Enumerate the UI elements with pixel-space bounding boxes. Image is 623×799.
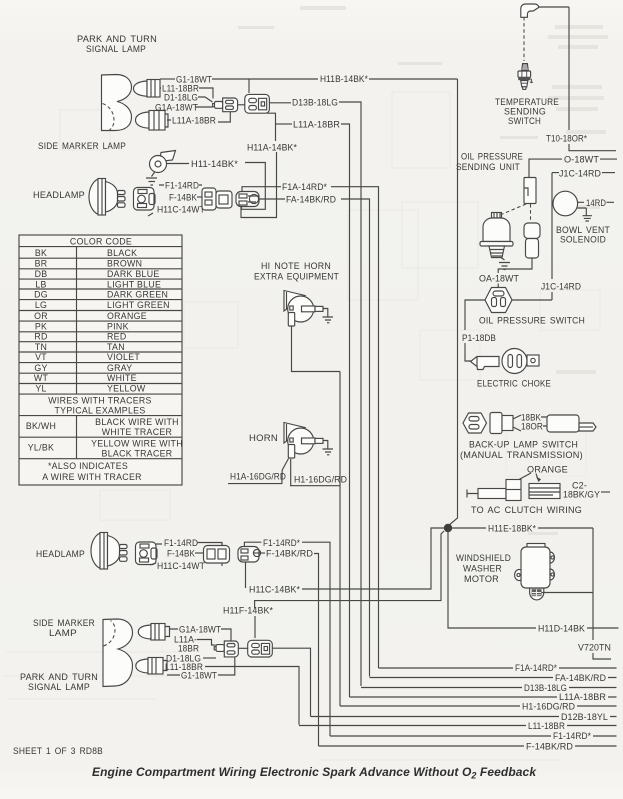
electric choke spade <box>471 357 500 370</box>
svg-text:H11C-14WT: H11C-14WT <box>157 205 205 215</box>
svg-text:J1C-14RD: J1C-14RD <box>541 282 581 292</box>
svg-text:TO AC CLUTCH WIRING: TO AC CLUTCH WIRING <box>471 505 582 515</box>
wire L11A leader (bottom) <box>197 640 216 646</box>
sending unit cap <box>492 213 502 219</box>
wire L11-18BR leader <box>160 88 213 99</box>
wire fan F1 <box>330 735 617 737</box>
svg-text:D12B-18YL: D12B-18YL <box>561 712 608 722</box>
svg-text:SIDE MARKER LAMP: SIDE MARKER LAMP <box>38 141 126 151</box>
svg-text:SIDE MARKER: SIDE MARKER <box>33 618 95 628</box>
wire J1C bracket <box>552 173 559 279</box>
wire fan FA <box>370 677 617 679</box>
ac clutch connector <box>467 480 560 501</box>
svg-text:V720TN: V720TN <box>578 643 611 653</box>
svg-text:LB: LB <box>35 279 46 289</box>
svg-text:DARK GREEN: DARK GREEN <box>107 290 168 300</box>
ground (side marker) <box>146 178 157 185</box>
hi note horn <box>284 291 328 327</box>
lamp housing (bottom) <box>103 619 133 687</box>
svg-text:F1-14RD: F1-14RD <box>165 181 199 191</box>
svg-text:LIGHT GREEN: LIGHT GREEN <box>107 300 170 310</box>
svg-text:SENDING UNIT: SENDING UNIT <box>456 162 520 172</box>
side marker lamp symbol <box>150 151 176 177</box>
svg-text:COLOR CODE: COLOR CODE <box>70 237 132 247</box>
svg-text:L11-18BR: L11-18BR <box>528 721 565 731</box>
svg-text:L11A-18BR: L11A-18BR <box>172 116 216 126</box>
svg-text:(MANUAL TRANSMISSION): (MANUAL TRANSMISSION) <box>460 450 583 460</box>
dashed wire to temp switch <box>523 17 525 61</box>
inline connector pair (bottom cluster) <box>214 641 238 657</box>
svg-text:DB: DB <box>35 269 48 279</box>
inline connector pair (park/turn) <box>213 98 238 112</box>
headlamp symbol (bottom) <box>91 533 127 570</box>
svg-text:18BR: 18BR <box>178 644 199 654</box>
park/turn lamp housing <box>102 75 132 131</box>
wire F1 right + drop <box>302 542 330 736</box>
svg-text:L11A-18BR: L11A-18BR <box>293 120 340 130</box>
svg-text:YL: YL <box>35 384 46 394</box>
horn <box>284 423 328 459</box>
wire D13B left <box>270 102 292 104</box>
wire G1/H11B main run <box>212 78 458 80</box>
headlamp symbol <box>89 179 125 216</box>
big connector (top) <box>245 94 270 113</box>
svg-text:BACK-UP LAMP SWITCH: BACK-UP LAMP SWITCH <box>469 440 578 450</box>
svg-text:O-18WT: O-18WT <box>564 155 599 165</box>
svg-text:RED: RED <box>107 332 126 342</box>
bowl vent solenoid <box>553 191 586 216</box>
svg-text:H11-14BK*: H11-14BK* <box>191 159 238 169</box>
wire to OA-18WT <box>498 258 532 273</box>
wire pair to big connector <box>238 104 245 106</box>
headlamp inline connector (bottom) <box>204 543 230 567</box>
svg-text:SENDING: SENDING <box>504 107 546 117</box>
svg-text:PARK AND TURN: PARK AND TURN <box>20 672 98 682</box>
wire H11B drop + diagonal to junction <box>448 79 458 526</box>
svg-text:H1-16DG/RD: H1-16DG/RD <box>294 475 347 485</box>
wire fan D13B <box>361 687 617 689</box>
wire pair to big connector (bottom) <box>239 647 248 649</box>
wire fan D12B <box>311 716 617 718</box>
svg-text:SOLENOID: SOLENOID <box>560 235 606 245</box>
svg-text:OIL PRESSURE: OIL PRESSURE <box>461 152 523 162</box>
wire H1 underline + drop <box>290 372 340 707</box>
svg-text:H11F-14BK*: H11F-14BK* <box>223 606 273 616</box>
wire motor plug to vertical <box>542 592 593 594</box>
svg-text:WHITE: WHITE <box>107 373 137 383</box>
wire fan L11A <box>350 696 617 698</box>
headlamp inline connector pair (top) <box>202 188 232 210</box>
wire FA drop <box>341 199 370 677</box>
wire V720TN bracket <box>593 653 611 659</box>
svg-text:YELLOW WIRE WITH: YELLOW WIRE WITH <box>91 439 183 449</box>
svg-text:BLACK TRACER: BLACK TRACER <box>102 449 173 459</box>
svg-text:F1-14RD*: F1-14RD* <box>263 538 300 548</box>
svg-text:MOTOR: MOTOR <box>464 574 499 584</box>
color code table <box>19 235 182 485</box>
svg-text:HORN: HORN <box>249 433 278 443</box>
svg-text:H1A-16DG/RD: H1A-16DG/RD <box>230 472 286 482</box>
ghost bleed-through marks (decorative) <box>238 6 608 535</box>
headlamp right connector (top) <box>236 192 259 207</box>
svg-text:BK: BK <box>35 248 47 258</box>
svg-text:PK: PK <box>35 321 47 331</box>
wire H11C-14BK* drop <box>245 562 247 588</box>
wire O-18WT left <box>529 159 562 177</box>
svg-text:PARK AND TURN: PARK AND TURN <box>77 34 157 44</box>
wire G1A leader <box>170 629 231 641</box>
svg-text:14RD: 14RD <box>586 198 606 208</box>
svg-text:SIGNAL LAMP: SIGNAL LAMP <box>86 44 146 54</box>
svg-text:SHEET 1 OF 3 RD8B: SHEET 1 OF 3 RD8B <box>13 746 103 756</box>
svg-text:F-14BK: F-14BK <box>169 193 197 203</box>
electric choke <box>502 349 539 374</box>
ground (hi note horn) <box>323 317 334 323</box>
wire horn lead H1A <box>228 459 289 484</box>
svg-text:RD: RD <box>34 332 47 342</box>
svg-text:A WIRE WITH TRACER: A WIRE WITH TRACER <box>42 472 142 482</box>
svg-text:J1C-14RD: J1C-14RD <box>559 169 601 179</box>
temperature sending switch <box>518 64 533 90</box>
oil pressure sending unit body <box>480 218 513 258</box>
wire F1 leader <box>159 184 202 186</box>
svg-text:G1A-18WT: G1A-18WT <box>179 625 221 635</box>
wire H11D <box>448 532 619 628</box>
wire D13B right + drop <box>339 102 361 686</box>
wire H11 leader <box>167 163 265 210</box>
svg-text:ORANGE: ORANGE <box>107 311 147 321</box>
wire fan F1A <box>379 667 617 669</box>
svg-text:WINDSHIELD: WINDSHIELD <box>456 553 511 563</box>
label PARK AND TURN SIGNAL LAMP <box>77 34 157 54</box>
bulb (park) <box>134 80 161 98</box>
svg-text:SIGNAL LAMP: SIGNAL LAMP <box>28 682 90 692</box>
svg-text:T10-18OR*: T10-18OR* <box>546 134 587 144</box>
svg-text:PINK: PINK <box>107 321 129 331</box>
svg-text:HEADLAMP: HEADLAMP <box>36 549 85 559</box>
svg-text:EXTRA EQUIPMENT: EXTRA EQUIPMENT <box>254 272 339 282</box>
wire drop to connector <box>248 79 250 93</box>
orange arrows <box>519 473 531 480</box>
wire big connector to D12B corner <box>272 648 310 716</box>
wire F right + drop <box>314 554 319 747</box>
svg-text:TEMPERATURE: TEMPERATURE <box>495 97 559 107</box>
wire H11C tick (bottom) <box>150 563 156 565</box>
wire F1A <box>242 187 281 192</box>
headlamp connector (bottom) <box>136 542 158 565</box>
svg-text:LAMP: LAMP <box>49 628 77 638</box>
elbow connector <box>521 4 539 17</box>
svg-text:F-14BK: F-14BK <box>167 549 195 559</box>
wire H11F drop <box>254 616 256 638</box>
svg-text:TAN: TAN <box>107 342 125 352</box>
svg-text:Engine Compartment Wiring Elec: Engine Compartment Wiring Electronic Spa… <box>92 765 537 781</box>
svg-text:P1-18DB: P1-18DB <box>462 333 496 343</box>
svg-text:L11A-18BR: L11A-18BR <box>559 692 606 702</box>
bulb (turn) <box>136 111 169 131</box>
windshield washer motor <box>515 544 555 600</box>
svg-text:BR: BR <box>35 259 48 269</box>
svg-text:F1-14RD*: F1-14RD* <box>553 731 591 741</box>
junction dot <box>444 524 452 532</box>
big connector (bottom cluster) <box>248 640 273 657</box>
wire H11C-14BK* run <box>302 528 444 589</box>
wire F leader (bottom) <box>195 552 204 554</box>
wire J1C right <box>602 172 615 174</box>
svg-text:FA-14BK/RD: FA-14BK/RD <box>555 673 606 683</box>
svg-text:H11D-14BK: H11D-14BK <box>538 624 585 634</box>
ground (solenoid) <box>583 216 592 221</box>
wire F leader <box>197 196 202 198</box>
ground (horn) <box>323 449 334 455</box>
svg-text:SWITCH: SWITCH <box>508 116 541 126</box>
svg-text:18BK/GY: 18BK/GY <box>563 490 600 500</box>
wire fan L11 <box>299 725 617 727</box>
wire F1-14RD* corner <box>244 542 261 546</box>
back-up plug <box>547 415 596 432</box>
svg-text:HEADLAMP: HEADLAMP <box>33 190 85 200</box>
svg-text:LIGHT BLUE: LIGHT BLUE <box>107 279 161 289</box>
wire G1-18WT to label <box>160 78 175 80</box>
svg-text:OIL PRESSURE SWITCH: OIL PRESSURE SWITCH <box>479 316 585 326</box>
svg-text:F1A-14RD*: F1A-14RD* <box>282 182 327 192</box>
wire J1C right of hex <box>512 292 552 300</box>
svg-text:LG: LG <box>35 300 47 310</box>
svg-text:GY: GY <box>34 363 47 373</box>
bulb side marker (bottom) <box>138 624 169 641</box>
wire L11A left <box>276 123 292 125</box>
svg-text:F1A-14RD*: F1A-14RD* <box>515 663 557 673</box>
svg-text:WT: WT <box>34 373 49 383</box>
svg-text:OR: OR <box>34 311 48 321</box>
wire L11 to corner <box>205 667 299 725</box>
svg-text:ELECTRIC CHOKE: ELECTRIC CHOKE <box>477 379 551 389</box>
svg-text:VIOLET: VIOLET <box>107 352 140 362</box>
svg-text:F-14BK/RD: F-14BK/RD <box>266 549 313 559</box>
dashed to sending unit <box>499 204 526 216</box>
svg-text:YL/BK: YL/BK <box>28 443 54 453</box>
svg-text:H11C-14BK*: H11C-14BK* <box>249 585 300 595</box>
svg-text:G1A-18WT: G1A-18WT <box>155 103 198 113</box>
lower connector + boot <box>524 223 540 258</box>
svg-text:BLACK WIRE WITH: BLACK WIRE WITH <box>95 417 179 427</box>
right connector (bottom) <box>238 547 261 563</box>
svg-text:D1-18LG: D1-18LG <box>164 93 198 103</box>
svg-text:HI NOTE HORN: HI NOTE HORN <box>261 261 331 271</box>
wire elbow to T10 <box>539 7 569 130</box>
wire F1A drop <box>331 187 379 668</box>
wire FA <box>259 198 285 200</box>
svg-text:DG: DG <box>34 290 48 300</box>
wire H11F to junction <box>255 531 444 608</box>
svg-text:WHITE TRACER: WHITE TRACER <box>102 427 172 437</box>
svg-text:H11E-18BK*: H11E-18BK* <box>488 524 536 534</box>
svg-text:F1-14RD: F1-14RD <box>164 538 198 548</box>
wire fan H1 <box>340 705 617 707</box>
svg-text:H11B-14BK*: H11B-14BK* <box>320 74 368 84</box>
svg-text:OA-18WT: OA-18WT <box>479 274 519 284</box>
wire FA leader <box>261 552 265 554</box>
svg-text:H1-16DG/RD: H1-16DG/RD <box>522 702 575 712</box>
svg-text:GRAY: GRAY <box>107 363 132 373</box>
wire H11C tick <box>148 213 153 216</box>
headlamp connector (top) <box>134 188 156 211</box>
wire to plug <box>541 417 547 426</box>
svg-text:18OR: 18OR <box>521 422 543 432</box>
oil sending unit connector <box>524 178 536 204</box>
wire fan F <box>319 745 617 747</box>
svg-text:F-14BK/RD: F-14BK/RD <box>526 742 573 752</box>
svg-text:TN: TN <box>35 342 47 352</box>
wire G1A leader <box>195 106 213 108</box>
wire P1 left <box>465 300 485 330</box>
svg-text:H11C-14WT: H11C-14WT <box>157 561 205 571</box>
wire hi note horn to H1 <box>292 326 341 372</box>
wire H11A below label <box>241 152 277 218</box>
housing dashed arc <box>103 104 115 131</box>
svg-text:G1-18WT: G1-18WT <box>181 671 217 681</box>
svg-text:H11A-14BK*: H11A-14BK* <box>247 143 297 153</box>
svg-text:YELLOW: YELLOW <box>107 384 146 394</box>
back-up switch connector <box>490 413 521 434</box>
wire L11A leader <box>167 111 230 122</box>
wire F1 (bottom) leader <box>156 543 222 546</box>
wire 14RD <box>578 201 614 203</box>
wire D1 leader <box>198 97 213 102</box>
svg-text:BROWN: BROWN <box>107 259 142 269</box>
svg-text:BOWL VENT: BOWL VENT <box>556 225 610 235</box>
svg-text:D13B-18LG: D13B-18LG <box>292 98 338 108</box>
wire O right <box>600 158 617 160</box>
oil pressure switch <box>485 288 512 313</box>
wire c2 dash <box>601 491 610 493</box>
back-up switch hex <box>463 413 487 433</box>
svg-text:VT: VT <box>35 352 47 362</box>
wire G1 leader (bottom) <box>167 658 235 676</box>
wire D1 leader (bottom) <box>203 657 216 659</box>
svg-text:BLACK: BLACK <box>107 248 137 258</box>
wire H11E <box>452 528 593 640</box>
wire OA to hex <box>497 284 499 288</box>
svg-text:WIRES WITH TRACERS: WIRES WITH TRACERS <box>48 396 151 406</box>
wire T10 below label <box>569 144 616 151</box>
svg-text:WASHER: WASHER <box>463 564 502 574</box>
svg-text:ORANGE: ORANGE <box>527 465 568 475</box>
svg-text:TYPICAL EXAMPLES: TYPICAL EXAMPLES <box>54 406 145 416</box>
wire L11A right + drop <box>341 124 350 697</box>
svg-text:BK/WH: BK/WH <box>26 421 56 431</box>
svg-text:*ALSO INDICATES: *ALSO INDICATES <box>48 461 128 471</box>
svg-text:DARK BLUE: DARK BLUE <box>107 269 160 279</box>
wire P1 below <box>465 343 474 361</box>
svg-text:FA-14BK/RD: FA-14BK/RD <box>286 195 336 205</box>
ground (sending unit) <box>499 258 510 270</box>
bulb park/turn (bottom) <box>136 658 167 675</box>
wire H11A drop from connector <box>267 113 276 141</box>
wire horn lead H1 <box>290 459 292 486</box>
housing dashed arc (bottom) <box>104 621 116 647</box>
